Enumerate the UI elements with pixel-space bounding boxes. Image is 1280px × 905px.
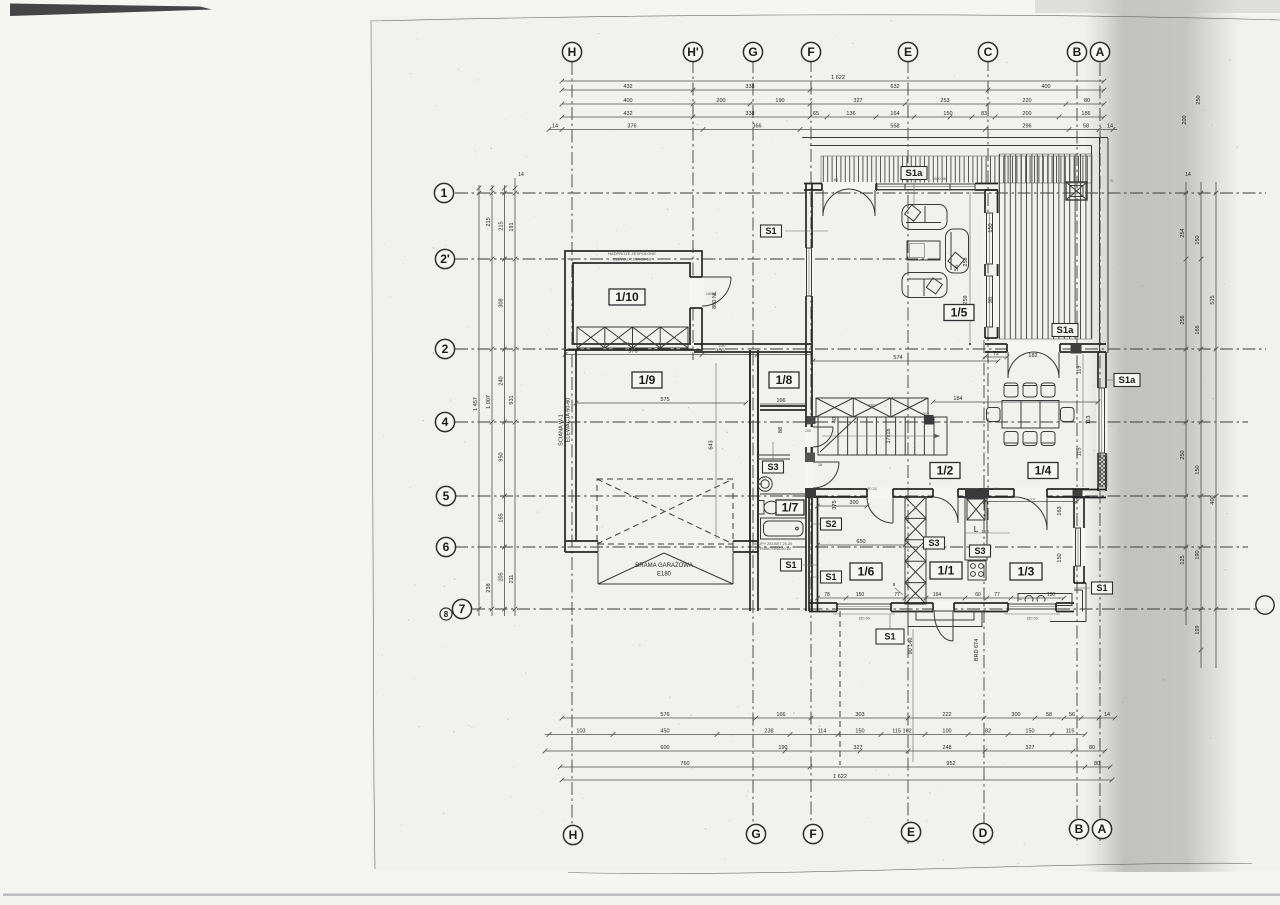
svg-text:238: 238: [486, 583, 492, 592]
svg-text:80: 80: [1089, 745, 1095, 751]
svg-text:C: C: [984, 45, 993, 59]
svg-text:211: 211: [509, 575, 515, 584]
svg-text:2: 2: [442, 342, 449, 356]
svg-text:150 50: 150 50: [1026, 617, 1038, 621]
svg-text:H: H: [569, 828, 578, 842]
svg-text:60: 60: [994, 487, 998, 491]
svg-text:B: B: [1075, 822, 1084, 836]
svg-text:650: 650: [856, 539, 865, 545]
svg-text:432: 432: [623, 84, 632, 90]
svg-text:56: 56: [954, 265, 960, 271]
svg-text:1/2: 1/2: [937, 464, 954, 478]
svg-text:450: 450: [660, 728, 669, 734]
svg-text:D: D: [979, 826, 988, 840]
svg-text:S1: S1: [785, 560, 796, 570]
svg-text:S1a: S1a: [1057, 325, 1075, 336]
svg-text:184: 184: [953, 396, 962, 402]
svg-text:S3: S3: [928, 538, 939, 548]
svg-text:400: 400: [1041, 84, 1050, 90]
svg-text:165: 165: [499, 513, 505, 522]
svg-text:600: 600: [660, 745, 669, 751]
svg-text:SLUPY ZELBET 25-25: SLUPY ZELBET 25-25: [754, 542, 792, 546]
svg-text:83: 83: [981, 111, 987, 117]
svg-text:S2: S2: [825, 519, 836, 529]
svg-text:7: 7: [459, 602, 466, 616]
svg-text:40: 40: [806, 422, 810, 426]
svg-text:558: 558: [890, 123, 899, 129]
svg-text:1/5: 1/5: [951, 306, 968, 320]
svg-text:164: 164: [890, 111, 899, 117]
svg-text:ELEWACJA 60-60: ELEWACJA 60-60: [566, 398, 572, 443]
svg-text:150: 150: [1025, 728, 1034, 734]
svg-text:14: 14: [552, 123, 558, 129]
svg-text:190: 190: [778, 745, 787, 751]
svg-text:1/9: 1/9: [639, 373, 656, 387]
svg-text:256: 256: [1180, 315, 1186, 324]
svg-text:366: 366: [752, 123, 761, 129]
svg-text:632: 632: [890, 84, 899, 90]
svg-text:190: 190: [775, 98, 784, 104]
svg-text:103: 103: [576, 728, 585, 734]
svg-text:1/10: 1/10: [615, 290, 639, 304]
svg-text:1 457: 1 457: [473, 397, 479, 411]
svg-text:191: 191: [509, 222, 515, 231]
svg-text:240: 240: [499, 376, 505, 385]
svg-text:200: 200: [716, 98, 725, 104]
svg-text:376: 376: [627, 123, 636, 129]
svg-text:114: 114: [818, 728, 827, 734]
svg-text:14: 14: [1104, 712, 1110, 718]
svg-text:194: 194: [933, 592, 942, 598]
svg-text:338: 338: [745, 84, 754, 90]
svg-text:296: 296: [1022, 123, 1031, 129]
svg-text:200: 200: [719, 343, 727, 348]
svg-text:1 007: 1 007: [486, 395, 492, 409]
svg-text:205: 205: [499, 572, 505, 581]
svg-text:LIMBA: LIMBA: [706, 292, 717, 296]
svg-text:1 622: 1 622: [831, 75, 845, 81]
svg-text:6: 6: [443, 540, 450, 554]
svg-text:259: 259: [963, 295, 969, 304]
svg-text:S1: S1: [884, 632, 895, 642]
svg-text:432: 432: [623, 111, 632, 117]
svg-text:S1: S1: [1096, 583, 1107, 593]
svg-text:575: 575: [660, 397, 669, 403]
svg-text:515: 515: [1210, 295, 1216, 304]
svg-text:80: 80: [1084, 98, 1090, 104]
svg-text:150: 150: [1195, 465, 1201, 474]
svg-text:150: 150: [855, 728, 864, 734]
svg-text:77: 77: [894, 592, 900, 598]
svg-text:H': H': [687, 45, 699, 59]
svg-text:250: 250: [1180, 450, 1186, 459]
svg-text:4: 4: [442, 415, 449, 429]
svg-text:215: 215: [486, 217, 492, 226]
svg-text:14: 14: [1107, 123, 1113, 129]
svg-text:E: E: [907, 825, 915, 839]
svg-text:L: L: [974, 525, 979, 534]
svg-text:H: H: [568, 45, 577, 59]
svg-text:574: 574: [893, 355, 902, 361]
svg-text:375: 375: [832, 500, 838, 509]
svg-text:253: 253: [940, 98, 949, 104]
svg-text:B02: B02: [923, 412, 929, 416]
svg-text:186: 186: [1081, 111, 1090, 117]
svg-text:254: 254: [1180, 228, 1186, 237]
svg-text:115: 115: [1066, 728, 1075, 734]
svg-text:220: 220: [1022, 98, 1031, 104]
svg-text:400: 400: [1210, 495, 1216, 504]
svg-text:NADPROZE ZESPOLONE: NADPROZE ZESPOLONE: [608, 251, 656, 256]
svg-text:A: A: [1096, 45, 1105, 59]
svg-text:S3: S3: [767, 462, 778, 472]
svg-text:14: 14: [518, 172, 524, 178]
svg-text:222: 222: [942, 712, 951, 718]
svg-text:150: 150: [988, 223, 994, 232]
svg-text:72: 72: [993, 351, 999, 357]
svg-text:88: 88: [778, 427, 784, 433]
svg-text:931: 931: [509, 395, 515, 404]
svg-text:8: 8: [444, 610, 449, 619]
svg-text:100: 100: [805, 429, 811, 433]
svg-text:ELEWACYJNA 60-60: ELEWACYJNA 60-60: [755, 547, 791, 551]
svg-text:125: 125: [1180, 555, 1186, 564]
svg-text:150: 150: [1195, 235, 1201, 244]
svg-text:300: 300: [1011, 712, 1020, 718]
svg-text:308: 308: [499, 298, 505, 307]
svg-text:100: 100: [942, 728, 951, 734]
svg-text:BRAMA GARAŻOWA: BRAMA GARAŻOWA: [635, 562, 692, 569]
svg-text:F: F: [809, 827, 816, 841]
svg-text:65: 65: [813, 111, 819, 117]
svg-text:90: 90: [810, 455, 814, 459]
svg-text:376: 376: [623, 341, 631, 346]
svg-text:90: 90: [988, 297, 994, 303]
svg-text:58: 58: [1046, 712, 1052, 718]
svg-text:SCIANA W-1: SCIANA W-1: [559, 414, 565, 446]
svg-text:643: 643: [709, 440, 715, 449]
svg-text:327: 327: [853, 745, 862, 751]
svg-text:BRD 674: BRD 674: [974, 639, 980, 661]
svg-text:950: 950: [499, 452, 505, 461]
svg-text:166: 166: [1195, 325, 1201, 334]
svg-text:1/4: 1/4: [1035, 464, 1052, 478]
svg-text:200: 200: [1022, 111, 1031, 117]
svg-text:78: 78: [824, 592, 830, 598]
svg-text:360: 360: [868, 403, 876, 408]
svg-text:1/1: 1/1: [938, 564, 955, 578]
svg-text:1 622: 1 622: [833, 774, 847, 780]
svg-text:E: E: [904, 45, 912, 59]
svg-text:S:: S:: [1110, 179, 1113, 183]
svg-text:300: 300: [849, 500, 858, 506]
svg-text:327: 327: [1025, 745, 1034, 751]
svg-text:40: 40: [832, 417, 838, 423]
svg-text:760: 760: [680, 761, 689, 767]
svg-text:376: 376: [628, 348, 637, 354]
svg-text:150: 150: [856, 592, 865, 598]
svg-text:150 60: 150 60: [858, 617, 870, 621]
svg-text:17x18: 17x18: [886, 429, 892, 444]
svg-text:E180: E180: [657, 572, 672, 578]
svg-text:150: 150: [943, 111, 952, 117]
svg-text:56: 56: [1069, 712, 1075, 718]
svg-text:182: 182: [1028, 353, 1037, 359]
svg-text:S1a: S1a: [906, 168, 924, 179]
svg-text:G: G: [748, 45, 757, 59]
svg-text:2': 2': [440, 252, 450, 266]
svg-text:80: 80: [834, 177, 839, 182]
svg-text:A: A: [1098, 822, 1107, 836]
svg-text:ELEWACYJNA 10-98: ELEWACYJNA 10-98: [613, 257, 652, 262]
svg-text:1/6: 1/6: [858, 565, 875, 579]
svg-text:26: 26: [818, 463, 822, 467]
svg-text:327: 327: [853, 98, 862, 104]
svg-text:190: 190: [1195, 550, 1201, 559]
svg-text:115 162: 115 162: [892, 728, 911, 734]
svg-text:238: 238: [764, 728, 773, 734]
svg-text:113: 113: [1086, 416, 1092, 425]
svg-text:150: 150: [1057, 553, 1063, 562]
svg-text:250: 250: [1196, 95, 1202, 104]
svg-text:1/3: 1/3: [1018, 565, 1035, 579]
svg-text:338: 338: [745, 111, 754, 117]
svg-text:130: 130: [1047, 592, 1056, 598]
svg-text:60: 60: [975, 592, 981, 598]
svg-text:576: 576: [660, 712, 669, 718]
svg-text:1/8: 1/8: [776, 373, 793, 387]
svg-text:248: 248: [942, 745, 951, 751]
svg-text:90 140: 90 140: [908, 638, 914, 655]
svg-text:O: O: [762, 476, 765, 481]
svg-text:82: 82: [985, 728, 991, 734]
svg-text:215: 215: [499, 221, 505, 230]
svg-text:400: 400: [623, 98, 632, 104]
svg-text:58: 58: [1083, 123, 1089, 129]
svg-text:F: F: [807, 45, 814, 59]
svg-text:1/7: 1/7: [782, 501, 799, 515]
svg-text:163: 163: [1057, 506, 1063, 515]
svg-text:S1a: S1a: [1119, 375, 1137, 386]
svg-text:80: 80: [1094, 761, 1100, 767]
svg-text:G: G: [751, 827, 760, 841]
svg-text:5: 5: [443, 489, 450, 503]
svg-text:952: 952: [946, 761, 955, 767]
svg-text:90 24: 90 24: [867, 487, 877, 491]
svg-text:166: 166: [776, 398, 785, 404]
svg-text:200: 200: [1182, 115, 1188, 124]
svg-text:303: 303: [855, 712, 864, 718]
svg-text:S1: S1: [765, 226, 776, 236]
svg-text:B: B: [1073, 45, 1082, 59]
svg-text:136: 136: [846, 111, 855, 117]
svg-text:166: 166: [776, 712, 785, 718]
svg-text:S3: S3: [974, 546, 985, 556]
svg-text:115: 115: [1077, 448, 1083, 457]
svg-text:S1: S1: [825, 572, 836, 582]
svg-text:600 86: 600 86: [934, 177, 946, 181]
svg-text:77: 77: [994, 592, 1000, 598]
svg-text:1: 1: [441, 186, 448, 200]
svg-text:119: 119: [1077, 366, 1083, 375]
